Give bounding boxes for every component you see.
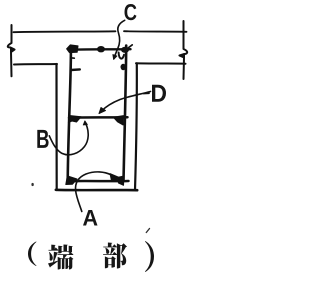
stirrup hook curl below top-right corner <box>119 53 124 59</box>
stem outer right wall <box>135 63 137 190</box>
rebar hook mid-left <box>68 116 81 123</box>
caption close paren <box>145 241 154 272</box>
dash before D <box>144 92 150 94</box>
label C <box>125 4 137 20</box>
leader A arrowhead <box>110 174 121 182</box>
right break flag <box>179 54 185 58</box>
rebar hook bottom-left <box>66 176 77 185</box>
rebar dot right leg at soffit level <box>121 64 126 70</box>
slab top line right segment <box>124 30 187 33</box>
label B <box>37 130 48 148</box>
rebar hook top-left <box>67 45 78 53</box>
left break line <box>8 25 15 76</box>
slab top line <box>14 30 116 33</box>
leader A <box>76 172 111 212</box>
stirrup bottom bar <box>68 180 128 183</box>
left break flag <box>11 48 16 52</box>
leader D arrowhead <box>99 108 106 114</box>
stirrup left leg <box>68 50 71 181</box>
label A <box>83 210 98 226</box>
stirrup right leg <box>124 46 127 182</box>
stem outer left wall <box>55 64 58 190</box>
paper speck left <box>31 183 33 186</box>
rebar hook top-right <box>121 47 129 53</box>
leader C <box>114 20 125 58</box>
caption open paren <box>28 242 37 267</box>
leader B arrowhead <box>83 121 87 125</box>
rebar hook mid-right <box>113 116 123 125</box>
slab bottom line left <box>14 63 57 66</box>
slab bottom line right <box>136 62 186 64</box>
left leg nub <box>71 57 75 59</box>
leader C arrowhead <box>113 55 117 60</box>
stirrup top bar <box>69 48 131 51</box>
left leg tick at soffit level <box>71 68 80 71</box>
kanji 部 <box>103 243 127 269</box>
label D <box>152 85 166 102</box>
stirrup mid bar <box>69 116 128 119</box>
rebar dot top-middle <box>97 46 105 52</box>
leader D <box>102 92 151 112</box>
stem outer bottom <box>56 189 137 192</box>
right break line <box>180 21 188 79</box>
kanji 端 <box>48 245 74 270</box>
rebar hook bottom-right <box>117 176 124 185</box>
paper speck right <box>146 229 149 233</box>
leader B <box>49 122 88 155</box>
